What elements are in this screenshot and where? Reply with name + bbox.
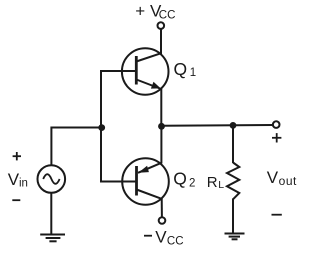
wire Q1 emitter to output node <box>160 88 162 127</box>
svg-text:out: out <box>279 174 297 188</box>
wire output node to output terminal <box>162 124 273 127</box>
svg-text:V: V <box>155 227 167 246</box>
svg-text:V: V <box>8 170 20 189</box>
svg-text:2: 2 <box>189 177 195 189</box>
label Q1 <box>174 59 197 79</box>
svg-text:R: R <box>207 174 218 191</box>
label − (Vin) <box>12 199 20 201</box>
label +VCC <box>135 2 175 22</box>
wire output node to RL <box>232 126 234 163</box>
label Vin <box>8 170 28 189</box>
svg-text:in: in <box>19 177 28 189</box>
transistor Q2 <box>122 158 169 205</box>
svg-text:CC: CC <box>167 235 184 247</box>
svg-text:Q: Q <box>173 169 187 189</box>
wire Vin source to base bus <box>51 128 101 166</box>
svg-text:L: L <box>218 179 224 191</box>
terminal +VCC <box>158 22 165 29</box>
ground (RL) <box>225 234 245 240</box>
label + (Vin) <box>13 152 21 160</box>
wire +VCC terminal to Q1 collector <box>160 29 162 54</box>
label Q2 <box>173 169 195 190</box>
svg-text:Q: Q <box>174 59 188 79</box>
svg-text:V: V <box>267 168 279 187</box>
label RL <box>207 174 225 191</box>
label −VCC <box>144 227 184 247</box>
ground (Vin) <box>40 235 65 242</box>
resistor RL <box>227 163 239 200</box>
terminal output <box>273 121 280 128</box>
source Vin (AC source) <box>38 165 66 193</box>
svg-text:CC: CC <box>159 9 176 21</box>
wire Q2 collector to -VCC terminal <box>161 198 163 217</box>
wire base bus (Q1 base to Q2 base) <box>101 71 137 182</box>
wire source to ground <box>50 193 52 235</box>
terminal -VCC <box>159 217 166 224</box>
label Vout <box>267 168 297 188</box>
wire output node to Q2 emitter <box>160 126 162 164</box>
svg-text:1: 1 <box>190 67 196 79</box>
transistor Q1 <box>122 48 169 95</box>
node base bus (junction dot) <box>98 124 105 131</box>
label − (output) <box>272 214 282 216</box>
label + (output) <box>272 133 281 142</box>
wire RL to ground <box>232 199 234 234</box>
node RL top (junction dot) <box>230 122 237 129</box>
node output (junction dot) <box>158 123 165 130</box>
